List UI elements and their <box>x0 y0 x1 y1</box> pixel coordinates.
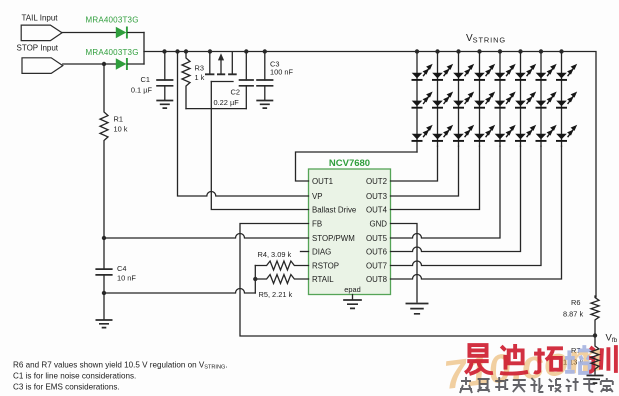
LED D42 <box>474 93 494 108</box>
node rail junction LED column <box>415 49 419 53</box>
ground epad <box>343 300 362 308</box>
watermark gray characters <box>460 377 613 393</box>
capacitor C2 <box>239 80 254 86</box>
wire LED column 7 <box>540 52 542 147</box>
svg-text:FB: FB <box>312 219 322 228</box>
diode D2 MRA4003T3G <box>116 58 127 70</box>
svg-text:R1: R1 <box>114 115 123 124</box>
wire C3 to ground <box>264 86 266 100</box>
transistor Q1 body arrow <box>220 58 222 74</box>
LED D32 <box>453 93 473 108</box>
node rail junction <box>184 49 188 53</box>
node rail junction LED column <box>498 49 502 53</box>
svg-text:OUT7: OUT7 <box>366 261 387 270</box>
wire diode output bus <box>143 33 145 65</box>
LED D53 <box>495 126 515 141</box>
LED D43 <box>474 126 494 141</box>
STOP input connector <box>22 58 63 74</box>
node rail junction C2 <box>244 49 248 53</box>
node C4/ground junction <box>102 291 106 295</box>
wire R3/C2 node <box>186 108 246 110</box>
watermark red characters <box>465 344 616 374</box>
wire STOP to D2 <box>63 63 116 65</box>
svg-text:C3 is for EMS considerations.: C3 is for EMS considerations. <box>13 383 120 392</box>
wire DIAG stub <box>301 251 309 253</box>
svg-text:VP: VP <box>312 192 323 201</box>
wire epad to ground <box>352 295 354 300</box>
svg-text:MRA4003T3G: MRA4003T3G <box>86 16 139 25</box>
wire D1 to bus <box>128 32 144 34</box>
LED D81 <box>556 65 576 80</box>
wire OUT6 <box>391 146 521 251</box>
wire rail to C2 <box>245 52 247 81</box>
LED D51 <box>495 65 515 80</box>
ground GND pin <box>406 304 429 314</box>
svg-text:R4, 3.09 k: R4, 3.09 k <box>258 250 292 259</box>
node rail junction LED column <box>477 49 481 53</box>
wire GND <box>391 224 418 303</box>
svg-text:NCV7680: NCV7680 <box>329 158 370 169</box>
LED D72 <box>536 93 556 108</box>
svg-text:10 k: 10 k <box>114 125 128 134</box>
LED D61 <box>515 65 535 80</box>
svg-text:1 k: 1 k <box>195 73 205 82</box>
node rail junction LED column <box>435 49 439 53</box>
svg-text:C1: C1 <box>141 75 150 84</box>
svg-text:0.1 µF: 0.1 µF <box>131 86 153 95</box>
node rail junction <box>175 49 179 53</box>
node rail junction LED column <box>518 49 522 53</box>
resistor R5 2.21 k <box>255 275 308 284</box>
svg-text:0.22 µF: 0.22 µF <box>214 98 240 107</box>
wire R4R5 to C4 node <box>104 289 255 294</box>
node rail junction LED column <box>456 49 460 53</box>
ground R7 <box>587 376 604 384</box>
svg-text:TAIL Input: TAIL Input <box>22 14 59 23</box>
wire C4 to node <box>103 275 105 293</box>
svg-text:OUT3: OUT3 <box>366 192 388 201</box>
wire LED column 1 <box>416 52 418 153</box>
transistor Q1 gate line <box>211 81 233 83</box>
resistor R3 1 k <box>182 52 190 109</box>
wire OUT5 <box>391 146 501 238</box>
LED D73 <box>536 126 556 141</box>
wire C2 to node <box>245 86 247 109</box>
wire OUT8 <box>391 146 562 279</box>
wire LED column 5 <box>499 52 501 147</box>
op-amp U1 NCV7680 body <box>309 169 391 295</box>
wire D2 to bus <box>128 63 144 65</box>
svg-text:STOP/PWM: STOP/PWM <box>312 234 355 243</box>
svg-text:10 nF: 10 nF <box>117 274 136 283</box>
wire LED column 2 <box>437 52 439 147</box>
node rail junction C3 <box>263 49 267 53</box>
svg-text:RTAIL: RTAIL <box>312 275 334 284</box>
wire OUT7 <box>391 146 542 265</box>
transistor Q1 source stub <box>231 52 233 73</box>
LED D13 <box>412 126 432 141</box>
LED D12 <box>412 93 432 108</box>
node R1/C4/STOP junction <box>102 236 106 240</box>
svg-text:epad: epad <box>344 285 360 294</box>
LED D82 <box>556 93 576 108</box>
node R4/R5 junction <box>253 277 257 281</box>
svg-text:OUT2: OUT2 <box>366 177 387 186</box>
wire R4/R5 join <box>254 266 256 294</box>
transistor Q1 drain stub <box>209 52 211 74</box>
LED D63 <box>515 126 535 141</box>
wire STOP/PWM <box>104 234 309 239</box>
capacitor C4 <box>95 269 112 275</box>
wire rail to C3 <box>264 52 266 81</box>
svg-text:8.87 k: 8.87 k <box>563 310 583 319</box>
transistor Q1 ballast channel bars <box>205 73 237 75</box>
wire VP <box>178 52 309 197</box>
capacitor C3 <box>256 80 273 86</box>
ground C4 <box>96 320 113 328</box>
wire C1 to ground <box>164 86 166 100</box>
LED D21 <box>432 65 452 80</box>
wire OUT4 <box>391 146 480 209</box>
svg-text:R3: R3 <box>195 64 204 73</box>
LED D41 <box>474 65 494 80</box>
svg-text:R6 and R7 values shown yield 1: R6 and R7 values shown yield 10.5 V regu… <box>13 361 228 371</box>
resistor R6 8.87 k <box>591 296 599 336</box>
resistor R7 1.13 k <box>591 336 599 375</box>
wire OUT3 <box>391 146 459 196</box>
svg-text:DIAG: DIAG <box>312 247 331 256</box>
wire TAIL to D1 <box>62 32 116 34</box>
node rail junction LED column <box>539 49 543 53</box>
resistor R4 3.09 k <box>255 261 308 270</box>
LED D52 <box>495 93 515 108</box>
wire node to C4 <box>103 238 105 269</box>
wire node to ground <box>103 293 105 319</box>
LED D33 <box>453 126 473 141</box>
svg-text:OUT5: OUT5 <box>366 234 388 243</box>
LED D22 <box>432 93 452 108</box>
LED D71 <box>536 65 556 80</box>
svg-text:RSTOP: RSTOP <box>312 261 339 270</box>
LED D83 <box>556 126 576 141</box>
node rail junction <box>208 49 212 53</box>
svg-text:GND: GND <box>369 219 387 228</box>
wire LED column 8 <box>561 52 563 147</box>
svg-text:VSTRING: VSTRING <box>466 33 506 45</box>
diode D1 MRA4003T3G <box>116 27 127 39</box>
svg-text:R5, 2.21 k: R5, 2.21 k <box>259 290 293 299</box>
node rail junction LED column <box>559 49 563 53</box>
svg-text:OUT6: OUT6 <box>366 247 388 256</box>
node rail junction <box>162 49 166 53</box>
node STOP/R1 junction <box>102 62 106 66</box>
wire OUT1 to LED column 1 <box>296 152 418 181</box>
wire OUT2 <box>391 146 438 181</box>
LED D23 <box>432 126 452 141</box>
wire FB <box>240 224 595 337</box>
svg-text:C1 is for line noise considera: C1 is for line noise considerations. <box>13 372 136 381</box>
wire LED column 4 <box>479 52 481 147</box>
svg-text:OUT8: OUT8 <box>366 275 388 284</box>
capacitor C1 <box>156 80 173 86</box>
wire rail to C1 <box>164 52 166 81</box>
wire Ballast Drive <box>211 82 308 210</box>
svg-text:OUT1: OUT1 <box>312 177 333 186</box>
LED D11 <box>412 65 432 80</box>
svg-text:STOP Input: STOP Input <box>17 44 59 53</box>
svg-text:Ballast Drive: Ballast Drive <box>312 205 357 214</box>
wire LED column 6 <box>520 52 522 147</box>
svg-text:100 nF: 100 nF <box>270 68 293 77</box>
LED D62 <box>515 93 535 108</box>
svg-text:R6: R6 <box>571 298 580 307</box>
LED D31 <box>453 65 473 80</box>
TAIL input connector <box>21 25 62 40</box>
svg-text:C2: C2 <box>231 88 240 97</box>
svg-text:C4: C4 <box>117 264 126 273</box>
svg-text:MRA4003T3G: MRA4003T3G <box>86 48 139 57</box>
node feedback junction <box>593 333 597 337</box>
resistor R1 10 k <box>100 64 108 238</box>
wire LED column 3 <box>458 52 460 147</box>
wire VSTRING rail <box>144 52 596 298</box>
svg-text:OUT4: OUT4 <box>366 205 388 214</box>
ground C1 <box>156 101 173 109</box>
ground C3 <box>256 101 273 109</box>
